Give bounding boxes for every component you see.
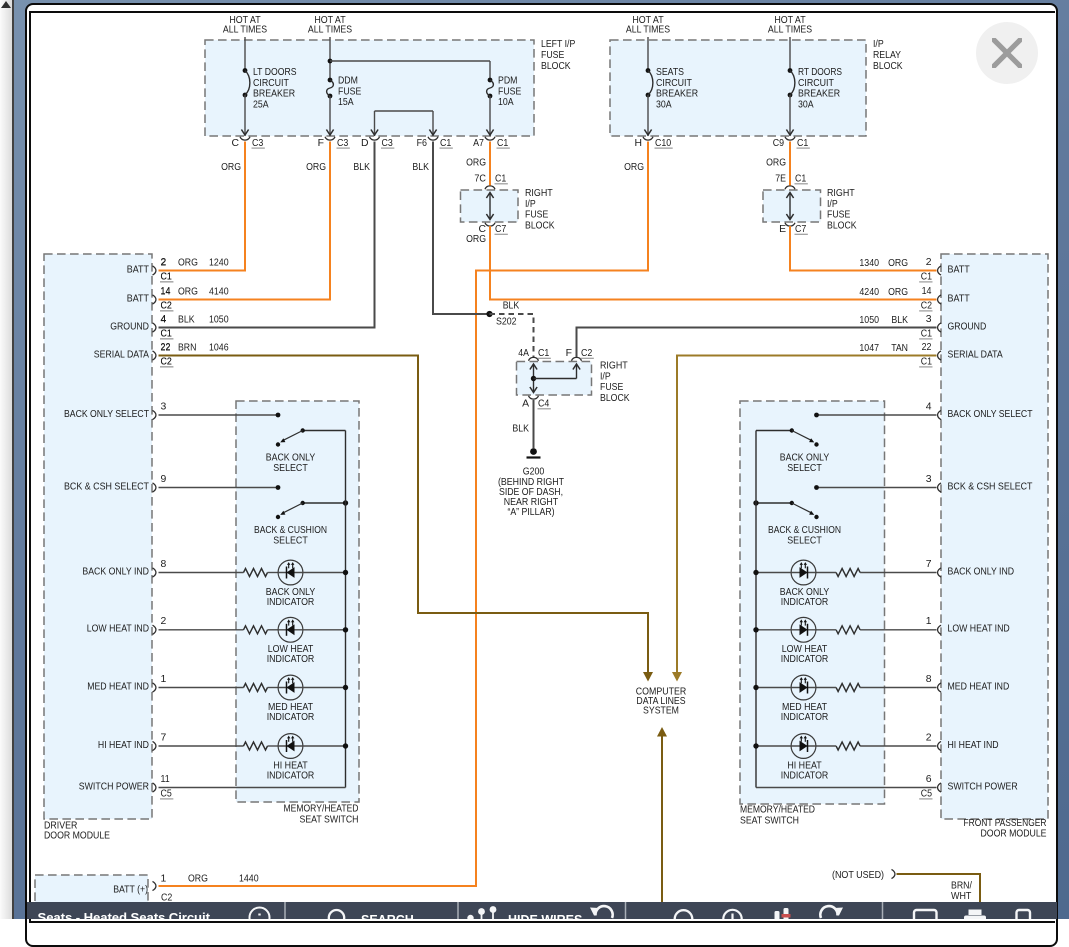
svg-text:3: 3 (926, 314, 932, 325)
svg-text:GROUND: GROUND (110, 321, 149, 332)
svg-text:14: 14 (161, 287, 171, 298)
svg-text:3: 3 (926, 474, 932, 485)
svg-text:C1: C1 (495, 174, 506, 185)
svg-text:F: F (566, 348, 572, 359)
svg-text:ORG: ORG (188, 874, 208, 885)
svg-text:D: D (361, 138, 369, 149)
svg-text:C1: C1 (497, 138, 508, 149)
svg-text:SERIAL DATA: SERIAL DATA (94, 349, 149, 360)
svg-text:INDICATOR: INDICATOR (267, 654, 315, 665)
svg-text:BREAKER: BREAKER (798, 89, 841, 100)
svg-text:C10: C10 (655, 138, 671, 149)
svg-text:ORG: ORG (624, 162, 644, 173)
svg-text:1046: 1046 (209, 343, 229, 354)
svg-text:A: A (522, 399, 529, 410)
svg-text:BREAKER: BREAKER (656, 89, 699, 100)
svg-text:C7: C7 (795, 224, 806, 235)
svg-text:C2: C2 (921, 300, 932, 311)
svg-text:2: 2 (161, 616, 167, 627)
svg-text:SELECT: SELECT (787, 463, 822, 474)
svg-text:CIRCUIT: CIRCUIT (656, 78, 692, 89)
svg-text:BLOCK: BLOCK (541, 61, 571, 72)
svg-text:C5: C5 (921, 788, 932, 799)
svg-text:4: 4 (926, 401, 932, 412)
svg-text:BLOCK: BLOCK (525, 220, 555, 231)
svg-text:FUSE: FUSE (600, 382, 623, 393)
svg-text:MED HEAT IND: MED HEAT IND (948, 681, 1010, 692)
svg-text:LT DOORS: LT DOORS (253, 67, 297, 78)
svg-text:ORG: ORG (888, 287, 908, 298)
svg-text:WHT: WHT (951, 891, 972, 902)
svg-text:RIGHT: RIGHT (827, 188, 855, 199)
svg-text:4: 4 (161, 315, 167, 326)
svg-text:8: 8 (161, 559, 167, 570)
svg-text:TAN: TAN (891, 343, 908, 354)
svg-text:4140: 4140 (209, 287, 229, 298)
svg-text:I/P: I/P (525, 199, 536, 210)
svg-text:C1: C1 (161, 328, 172, 339)
svg-text:1340: 1340 (859, 258, 879, 269)
svg-text:C2: C2 (581, 348, 592, 359)
svg-text:FUSE: FUSE (525, 210, 548, 221)
svg-text:2: 2 (926, 257, 932, 268)
svg-text:1: 1 (926, 616, 932, 627)
svg-text:30A: 30A (798, 99, 814, 110)
svg-text:RELAY: RELAY (873, 50, 901, 61)
svg-text:C1: C1 (161, 271, 172, 282)
svg-text:CIRCUIT: CIRCUIT (798, 78, 834, 89)
svg-text:ORG: ORG (466, 158, 486, 169)
svg-text:FUSE: FUSE (827, 210, 850, 221)
svg-text:SELECT: SELECT (273, 536, 308, 547)
svg-text:F6: F6 (417, 138, 428, 149)
svg-text:BLK: BLK (891, 315, 908, 326)
svg-text:C1: C1 (797, 138, 808, 149)
svg-text:INDICATOR: INDICATOR (267, 597, 315, 608)
svg-text:BLOCK: BLOCK (873, 61, 903, 72)
svg-text:C3: C3 (337, 138, 348, 149)
svg-text:HI HEAT IND: HI HEAT IND (98, 740, 149, 751)
svg-text:C4: C4 (538, 399, 549, 410)
svg-text:7: 7 (161, 732, 167, 743)
svg-text:“A” PILLAR): “A” PILLAR) (507, 507, 554, 518)
svg-text:MED HEAT IND: MED HEAT IND (87, 681, 149, 692)
svg-text:CIRCUIT: CIRCUIT (253, 78, 289, 89)
svg-text:A7: A7 (473, 138, 484, 149)
svg-text:BCK & CSH SELECT: BCK & CSH SELECT (948, 481, 1034, 492)
svg-text:FUSE: FUSE (541, 50, 564, 61)
svg-text:1050: 1050 (209, 315, 229, 326)
svg-text:C1: C1 (921, 271, 932, 282)
svg-text:ORG: ORG (888, 258, 908, 269)
svg-text:SWITCH POWER: SWITCH POWER (948, 781, 1019, 792)
svg-text:FUSE: FUSE (338, 86, 361, 97)
svg-text:F: F (318, 138, 324, 149)
svg-text:BLK: BLK (353, 162, 370, 173)
svg-text:INDICATOR: INDICATOR (781, 654, 829, 665)
svg-text:C7: C7 (495, 224, 506, 235)
svg-text:INDICATOR: INDICATOR (267, 770, 315, 781)
svg-text:BRN/: BRN/ (951, 881, 972, 892)
svg-text:LOW HEAT IND: LOW HEAT IND (948, 624, 1010, 635)
svg-text:LOW HEAT IND: LOW HEAT IND (87, 624, 149, 635)
svg-text:BACK & CUSHION: BACK & CUSHION (254, 525, 327, 536)
svg-text:I/P: I/P (827, 199, 838, 210)
svg-text:SERIAL DATA: SERIAL DATA (948, 349, 1003, 360)
svg-text:LEFT I/P: LEFT I/P (541, 39, 575, 50)
svg-text:MEMORY/HEATED: MEMORY/HEATED (740, 805, 815, 816)
svg-text:BLK: BLK (412, 162, 429, 173)
svg-text:ALL TIMES: ALL TIMES (768, 25, 812, 36)
svg-text:7: 7 (926, 559, 932, 570)
svg-text:22: 22 (161, 343, 171, 354)
svg-text:C1: C1 (538, 348, 549, 359)
svg-text:25A: 25A (253, 99, 269, 110)
svg-text:SEATS: SEATS (656, 67, 684, 78)
svg-text:I/P: I/P (600, 371, 611, 382)
svg-text:BCK & CSH SELECT: BCK & CSH SELECT (64, 481, 150, 492)
svg-text:BATT: BATT (948, 293, 971, 304)
svg-text:I/P: I/P (873, 39, 884, 50)
svg-text:1: 1 (161, 874, 167, 885)
svg-text:SEAT SWITCH: SEAT SWITCH (740, 816, 799, 827)
svg-text:3: 3 (161, 401, 167, 412)
svg-text:BLK: BLK (503, 301, 520, 312)
svg-text:ALL TIMES: ALL TIMES (308, 25, 352, 36)
svg-text:S202: S202 (496, 317, 517, 328)
svg-text:C: C (231, 138, 239, 149)
svg-text:ALL TIMES: ALL TIMES (223, 25, 267, 36)
svg-text:RIGHT: RIGHT (525, 188, 553, 199)
svg-text:GROUND: GROUND (948, 321, 987, 332)
svg-text:8: 8 (926, 674, 932, 685)
svg-text:SELECT: SELECT (273, 463, 308, 474)
svg-text:BLK: BLK (512, 424, 529, 435)
svg-text:BATT (+): BATT (+) (113, 885, 148, 896)
svg-text:C3: C3 (382, 138, 393, 149)
svg-text:C1: C1 (795, 174, 806, 185)
svg-text:BREAKER: BREAKER (253, 89, 296, 100)
svg-text:ORG: ORG (766, 158, 786, 169)
svg-text:C5: C5 (161, 788, 172, 799)
svg-text:DOOR MODULE: DOOR MODULE (981, 828, 1047, 839)
svg-text:BLOCK: BLOCK (600, 393, 630, 404)
svg-text:BLOCK: BLOCK (827, 220, 857, 231)
svg-text:DOOR MODULE: DOOR MODULE (44, 831, 110, 842)
svg-text:BLK: BLK (178, 315, 195, 326)
svg-text:C2: C2 (161, 356, 172, 367)
svg-text:10A: 10A (498, 97, 514, 108)
svg-text:G200: G200 (523, 467, 545, 478)
svg-text:BACK ONLY SELECT: BACK ONLY SELECT (948, 409, 1034, 420)
svg-text:MEMORY/HEATED: MEMORY/HEATED (284, 804, 359, 815)
svg-text:INDICATOR: INDICATOR (781, 712, 829, 723)
svg-text:7C: 7C (474, 174, 486, 185)
svg-text:BATT: BATT (127, 264, 150, 275)
svg-text:1050: 1050 (859, 315, 879, 326)
svg-text:1047: 1047 (859, 343, 879, 354)
svg-text:4A: 4A (518, 348, 529, 359)
svg-text:C9: C9 (773, 138, 784, 149)
svg-text:C1: C1 (921, 356, 932, 367)
svg-text:INDICATOR: INDICATOR (267, 712, 315, 723)
svg-text:ORG: ORG (178, 287, 198, 298)
svg-text:C1: C1 (440, 138, 451, 149)
svg-text:BACK ONLY IND: BACK ONLY IND (948, 566, 1015, 577)
svg-text:INDICATOR: INDICATOR (781, 770, 829, 781)
svg-text:15A: 15A (338, 97, 354, 108)
svg-text:FUSE: FUSE (498, 86, 521, 97)
svg-text:ORG: ORG (306, 162, 326, 173)
svg-text:ORG: ORG (466, 234, 486, 245)
svg-text:SEAT SWITCH: SEAT SWITCH (300, 815, 359, 826)
svg-text:ALL TIMES: ALL TIMES (626, 25, 670, 36)
svg-text:11: 11 (161, 774, 170, 785)
svg-text:(NOT USED): (NOT USED) (832, 870, 884, 881)
svg-text:RT DOORS: RT DOORS (798, 67, 842, 78)
svg-text:C1: C1 (921, 328, 932, 339)
svg-text:E: E (779, 224, 786, 235)
svg-text:SWITCH POWER: SWITCH POWER (79, 781, 150, 792)
svg-text:6: 6 (926, 774, 932, 785)
svg-text:SELECT: SELECT (787, 536, 822, 547)
svg-text:1240: 1240 (209, 258, 229, 269)
svg-text:BACK & CUSHION: BACK & CUSHION (768, 525, 841, 536)
svg-text:INDICATOR: INDICATOR (781, 597, 829, 608)
svg-text:2: 2 (161, 258, 167, 269)
svg-text:9: 9 (161, 474, 167, 485)
svg-text:C2: C2 (161, 300, 172, 311)
svg-text:BACK ONLY IND: BACK ONLY IND (82, 566, 149, 577)
svg-text:BATT: BATT (948, 264, 971, 275)
svg-text:BRN: BRN (178, 343, 196, 354)
svg-text:7E: 7E (775, 174, 786, 185)
svg-text:14: 14 (922, 286, 932, 297)
svg-text:DDM: DDM (338, 76, 358, 87)
svg-text:BACK ONLY SELECT: BACK ONLY SELECT (64, 409, 150, 420)
svg-text:C3: C3 (252, 138, 263, 149)
svg-text:RIGHT: RIGHT (600, 361, 628, 372)
svg-text:HI HEAT IND: HI HEAT IND (948, 740, 999, 751)
svg-text:22: 22 (922, 342, 932, 353)
svg-text:4240: 4240 (859, 287, 879, 298)
svg-text:ORG: ORG (221, 162, 241, 173)
svg-text:30A: 30A (656, 99, 672, 110)
svg-text:SYSTEM: SYSTEM (643, 706, 679, 717)
svg-text:2: 2 (926, 732, 932, 743)
svg-text:H: H (634, 138, 642, 149)
svg-text:BATT: BATT (127, 293, 150, 304)
svg-text:BACK ONLY: BACK ONLY (780, 453, 829, 464)
svg-text:1440: 1440 (239, 874, 259, 885)
svg-text:ORG: ORG (178, 258, 198, 269)
svg-text:1: 1 (161, 674, 167, 685)
svg-text:PDM: PDM (498, 76, 517, 87)
